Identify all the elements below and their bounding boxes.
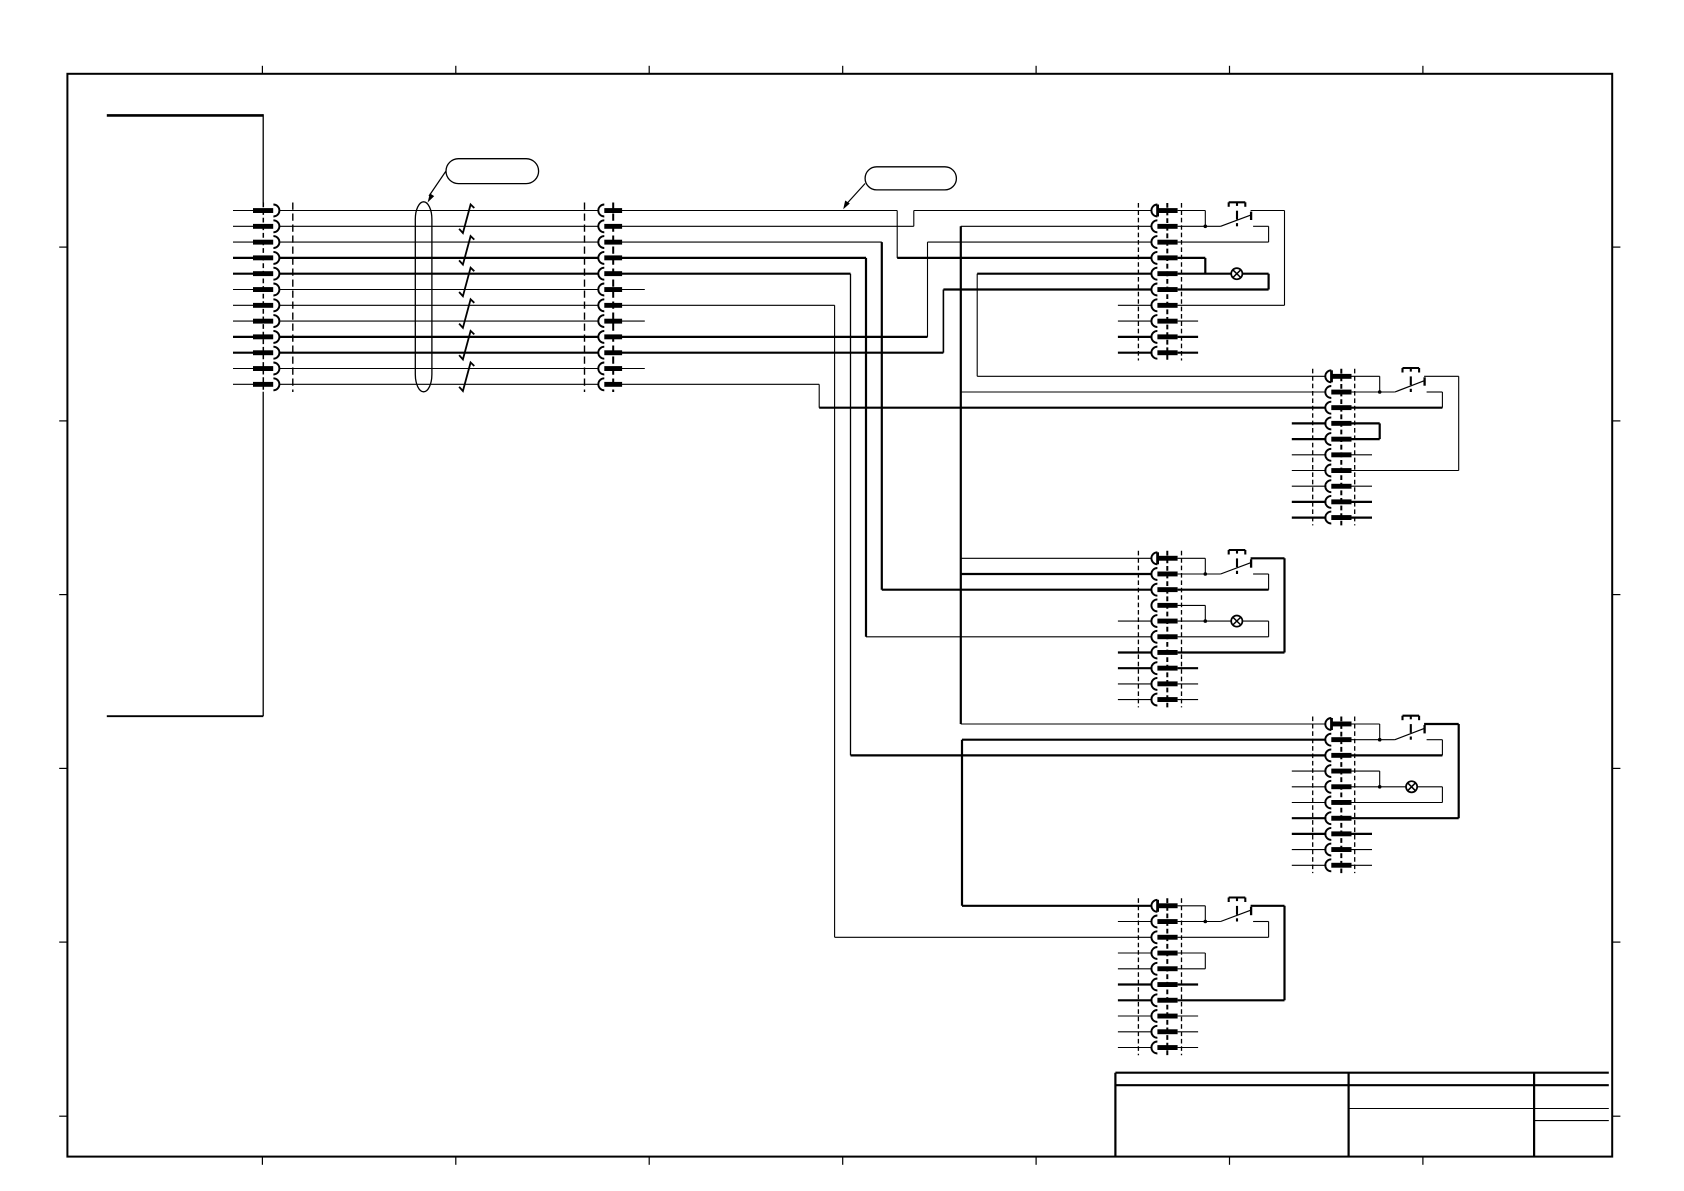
wire net12 (279, 383, 598, 385)
wire J7 pin7 stub (1118, 999, 1153, 1001)
connector J7 (1118, 898, 1198, 1055)
wire (1352, 739, 1395, 741)
wire J5 pin9 stub (1178, 683, 1199, 685)
wire J4 pin9 stub (1352, 501, 1373, 503)
wire (622, 368, 645, 370)
wire B bridge return (1352, 438, 1380, 440)
wire (1283, 558, 1285, 652)
pin 9 (1151, 331, 1157, 343)
wire (1178, 288, 1269, 290)
junction B (1378, 390, 1382, 394)
wire (960, 226, 962, 724)
wire J1 pin 2 stub (233, 225, 253, 227)
cable W1 wires (279, 211, 598, 385)
pin 8 (1151, 1010, 1157, 1022)
wire J5 pin5 stub (1118, 620, 1153, 622)
pin 8 (1325, 828, 1331, 840)
wire (1424, 375, 1459, 377)
wire J4 pin5 stub (1292, 438, 1327, 440)
twisted-pair mark 1 (459, 205, 474, 234)
wire J1 pin 7 stub (233, 304, 253, 306)
wire C lamp return (1242, 620, 1268, 622)
pin 5 (1325, 781, 1331, 793)
wire (1178, 257, 1206, 259)
wire (1251, 210, 1285, 212)
wire J3 pin7 stub (1118, 304, 1153, 306)
pin 8 (1325, 480, 1331, 492)
wire (1178, 905, 1206, 907)
wire (1352, 470, 1459, 472)
pin 7 (1151, 994, 1157, 1006)
twisted-pair mark 5 (459, 331, 474, 360)
wire net4 (279, 257, 598, 259)
pin 9 (598, 331, 604, 343)
pin 1 (1325, 718, 1331, 730)
wire (976, 274, 978, 377)
pin 5 (1151, 615, 1157, 627)
wire J1 pin 10 stub (233, 352, 253, 354)
wire J6 pin9 stub (1292, 849, 1327, 851)
net r1: J2-1 to J3-4 (622, 211, 1151, 258)
pin 10 (253, 350, 273, 355)
wire (882, 589, 1152, 591)
wire J5 pin10 stub (1178, 699, 1199, 701)
wire J5 pin8 stub (1118, 667, 1153, 669)
pin 9 (1325, 496, 1331, 508)
wire (961, 557, 1152, 559)
J5 boundary dashes (1137, 551, 1139, 708)
wire J4 pin8 stub (1292, 485, 1327, 487)
pin 2 (1325, 734, 1331, 746)
connector J3 (1118, 203, 1198, 361)
wire (1268, 226, 1270, 242)
wire net11 (279, 368, 598, 370)
switch S-A (1221, 202, 1252, 226)
wire (961, 723, 1325, 725)
wire J5 pin9 stub (1118, 683, 1153, 685)
pin 10 (1325, 512, 1331, 524)
switch S-B wiring (1352, 376, 1395, 392)
wire (1178, 589, 1269, 591)
net r3: J2-3 to J5-3 (622, 242, 1151, 590)
pin 8 (253, 319, 273, 324)
junction D lamp (1378, 785, 1382, 789)
wire J6 pin7 stub (1292, 817, 1327, 819)
pin 6 (1325, 449, 1331, 461)
pin 9 (253, 334, 273, 339)
pin 5 (1151, 268, 1157, 280)
pin 8 (1151, 315, 1157, 327)
wire (1253, 573, 1269, 575)
wire (1251, 557, 1285, 559)
wire net7 (279, 304, 598, 306)
wire D pin4-pin5 bridge (1352, 771, 1380, 787)
junction C (1204, 572, 1208, 576)
wire J6 pin8 stub (1352, 833, 1373, 835)
pin 10 (1151, 694, 1157, 706)
junction D (1378, 738, 1382, 742)
pin 6 (1325, 797, 1331, 809)
wire (927, 242, 929, 337)
wire (622, 336, 928, 338)
wire (961, 573, 1152, 575)
wire J1 pin 8 stub (233, 320, 253, 322)
J2 boundary dash (584, 203, 586, 393)
wire (850, 274, 852, 756)
twisted-pair mark 2 (459, 236, 474, 265)
wire J6 pin6 stub (1292, 802, 1327, 804)
wire (1379, 376, 1381, 392)
wire (1178, 921, 1221, 923)
wire A pin4-pin5 bridge (1178, 258, 1206, 274)
wire (1204, 906, 1206, 922)
wire (1253, 225, 1269, 227)
wire (1352, 754, 1443, 756)
wire (819, 407, 1325, 409)
wire J7 pin9 stub (1178, 1031, 1199, 1033)
wire (622, 320, 645, 322)
wire J7 pin6 stub (1178, 983, 1199, 985)
wire (1352, 817, 1459, 819)
pin 3 (1151, 931, 1157, 943)
wire A lamp return (1242, 273, 1268, 275)
wire J7 pin9 stub (1118, 1031, 1153, 1033)
wire C pin4-pin5 bridge (1178, 605, 1206, 621)
twisted-pair mark 3 (459, 268, 474, 297)
wire (961, 740, 963, 906)
pin 11 (253, 366, 273, 371)
pin 4 (598, 252, 604, 264)
wire net6 (279, 289, 598, 291)
wire J4 pin9 stub (1292, 501, 1327, 503)
wire (1178, 936, 1269, 938)
wire J1 pin 11 stub (233, 368, 253, 370)
wire (1268, 922, 1270, 938)
wire (881, 242, 883, 590)
wire J3 pin9 stub (1178, 336, 1199, 338)
wire J6 pin10 stub (1352, 864, 1373, 866)
junction C lamp (1204, 619, 1208, 623)
wire (961, 225, 1152, 227)
pin 5 (253, 271, 273, 276)
pin 2 (1151, 220, 1157, 232)
bus X2: D2-E1 (962, 740, 1325, 906)
wire J3 pin10 stub (1178, 352, 1199, 354)
wire net2 (279, 225, 598, 227)
wire (622, 241, 882, 243)
wire (1283, 906, 1285, 1001)
wire (1178, 210, 1206, 212)
wire J7 pin2 stub (1118, 921, 1153, 923)
pin 1 (1325, 370, 1331, 382)
J3 centerline (1166, 203, 1168, 361)
wire (928, 241, 1152, 243)
wire net3 (279, 241, 598, 243)
pin 8 (598, 315, 604, 327)
wire (962, 739, 1325, 741)
bus X1: A2-B2-C1-C2-D1 (961, 226, 1325, 724)
wire net1 (279, 210, 598, 212)
wire (962, 905, 1151, 907)
wire B loop return (1352, 376, 1459, 470)
J1 boundary dash (292, 203, 294, 393)
wire (818, 384, 820, 407)
wire J3 pin9 stub (1118, 336, 1153, 338)
wire J5 pin7 stub (1118, 651, 1153, 653)
switch S-E wiring (1178, 906, 1221, 922)
wire J7 pin10 stub (1178, 1047, 1199, 1049)
pin 4 (1151, 252, 1157, 264)
pin 4 (253, 255, 273, 260)
pin 9 (1151, 1026, 1157, 1038)
pin 6 (1151, 631, 1157, 643)
pin 2 (1151, 916, 1157, 928)
wire J3 pin8 stub (1118, 320, 1153, 322)
wire (977, 375, 1325, 377)
pin 1 (1151, 205, 1157, 217)
switch S-D (1395, 716, 1425, 740)
wire E NC return (1178, 922, 1269, 938)
pin 12 (253, 382, 273, 387)
wire (851, 754, 1326, 756)
wire J7 pin10 stub (1118, 1047, 1153, 1049)
switch S-B (1395, 368, 1425, 392)
wire J6 pin4 stub (1292, 770, 1327, 772)
J6 boundary dashes (1312, 717, 1314, 874)
switch S-C (1221, 550, 1252, 574)
wire J4 pin4 stub (1292, 422, 1327, 424)
pin 7 (598, 299, 604, 311)
wire J6 pin8 stub (1292, 833, 1327, 835)
twisted-pair mark 4 (459, 299, 474, 328)
wire J1 pin 1 stub (233, 210, 253, 212)
J6 centerline (1340, 717, 1342, 874)
wire (1379, 423, 1381, 439)
wire J5 pin8 stub (1178, 667, 1199, 669)
wire (977, 273, 1151, 275)
wire J1 pin 3 stub (233, 241, 253, 243)
wire (1178, 636, 1269, 638)
pin 9 (1325, 844, 1331, 856)
callout label 2 (843, 167, 956, 210)
pin 1 (1151, 900, 1157, 912)
wire (1379, 771, 1381, 787)
connector J6 (1292, 717, 1372, 874)
J7 boundary dashes (1137, 898, 1139, 1055)
connector J1 (233, 203, 293, 393)
wire E pin4-pin5 bridge (1178, 953, 1206, 969)
wire (943, 288, 1151, 290)
connector J2 (585, 203, 623, 393)
pin 6 (253, 287, 273, 292)
wire (896, 211, 898, 258)
wire (1441, 392, 1443, 408)
wire J7 pin6 stub (1118, 983, 1153, 985)
wire (1352, 802, 1443, 804)
wire C loop return (1178, 558, 1285, 652)
wire (1441, 787, 1443, 803)
switch S-A wiring (1178, 211, 1221, 227)
wire (1352, 422, 1380, 424)
pin 2 (1151, 568, 1157, 580)
wire (1204, 558, 1206, 574)
junction E (1204, 920, 1208, 924)
wire J1 pin 12 stub (233, 383, 253, 385)
wire J1 pin 6 stub (233, 289, 253, 291)
wire (1204, 258, 1206, 274)
wire (1178, 225, 1221, 227)
wire (913, 211, 915, 227)
wire J6 pin5 stub (1292, 786, 1327, 788)
wire (1268, 621, 1270, 637)
wire J4 pin6 stub (1292, 454, 1327, 456)
pin 6 (1151, 979, 1157, 991)
wire (1458, 724, 1460, 818)
pin 12 (598, 378, 604, 390)
wire E bridge return (1178, 968, 1206, 970)
wire C lamp feed (1178, 620, 1232, 622)
wire (942, 290, 944, 353)
pin 4 (1325, 417, 1331, 429)
wire (622, 352, 943, 354)
wire (1178, 651, 1285, 653)
wire J4 pin6 stub (1352, 454, 1373, 456)
pin 10 (1151, 1042, 1157, 1054)
wire (835, 936, 1152, 938)
pin 3 (1151, 584, 1157, 596)
wire A NC return (1178, 226, 1269, 242)
wire (1267, 274, 1269, 290)
wire J4 pin8 stub (1352, 485, 1373, 487)
wire (866, 636, 1151, 638)
pin 10 (1325, 859, 1331, 871)
wire (1178, 573, 1221, 575)
wire (1352, 723, 1380, 725)
wire A lamp feed (1178, 273, 1232, 275)
wire (961, 391, 1325, 393)
net r5: J2-5 to J6-3 (622, 274, 1325, 756)
twisted-pair mark 6 (459, 363, 474, 392)
wire (622, 257, 866, 259)
pin 4 (1151, 599, 1157, 611)
wire J4 pin10 stub (1292, 516, 1327, 518)
wire J3 pin8 stub (1178, 320, 1199, 322)
pin 5 (598, 268, 604, 280)
wire C NC return (1178, 574, 1269, 590)
pin 1 (598, 205, 604, 217)
pin 5 (1151, 963, 1157, 975)
pin 3 (1325, 402, 1331, 414)
net r12: J2-12 to J4-3 (622, 384, 1325, 407)
wire (1178, 304, 1285, 306)
wire J7 pin8 stub (1118, 1015, 1153, 1017)
wire (622, 210, 897, 212)
pin 3 (1325, 749, 1331, 761)
net r2: J2-2 to J3-1 (622, 211, 1151, 227)
wire B pin4-pin5 bridge (1352, 423, 1380, 439)
net r4: J2-4 to J5-6 (622, 258, 1151, 637)
wire (622, 273, 851, 275)
wire J7 pin5 stub (1118, 968, 1153, 970)
pin 8 (1151, 662, 1157, 674)
pin 11 (598, 363, 604, 375)
pin 3 (253, 240, 273, 245)
pin 6 (1151, 284, 1157, 296)
wire J5 pin10 stub (1118, 699, 1153, 701)
wire (1204, 211, 1206, 227)
wire J4 pin7 stub (1292, 470, 1327, 472)
pin 9 (1151, 678, 1157, 690)
pin 4 (1325, 765, 1331, 777)
wire (1427, 739, 1443, 741)
wire (1178, 241, 1269, 243)
wire J4 pin10 stub (1352, 516, 1373, 518)
wire D lamp return (1417, 786, 1442, 788)
pin 2 (1325, 386, 1331, 398)
wire (914, 210, 1152, 212)
pin 10 (1151, 347, 1157, 359)
wire (1284, 211, 1286, 306)
wire (1352, 391, 1395, 393)
wire net5 (279, 273, 598, 275)
wire (1427, 391, 1443, 393)
wire J6 pin10 stub (1292, 864, 1327, 866)
wire (1458, 376, 1460, 470)
title block (1115, 1073, 1608, 1157)
wire (1352, 375, 1380, 377)
wire (1352, 770, 1380, 772)
wire D lamp feed (1352, 786, 1407, 788)
pin 6 (598, 284, 604, 296)
wire (1253, 921, 1269, 923)
J7 centerline (1166, 898, 1168, 1055)
wire (1178, 999, 1285, 1001)
switch S-E (1221, 898, 1252, 922)
wire (622, 225, 914, 227)
wire net8 (279, 320, 598, 322)
J4 centerline (1340, 369, 1342, 526)
wire (1268, 574, 1270, 590)
wire (1204, 605, 1206, 621)
pin 7 (1325, 465, 1331, 477)
wire D loop return (1352, 724, 1459, 818)
pin 1 (1151, 552, 1157, 564)
wire (1204, 953, 1206, 969)
lamp DS-D (1406, 781, 1417, 792)
pin 7 (1151, 299, 1157, 311)
wire J7 pin4 stub (1118, 952, 1153, 954)
switch S-C wiring (1178, 558, 1221, 574)
wire D NC return (1352, 740, 1443, 756)
net r7: J2-7 to J7-3 (622, 305, 1151, 937)
wire (897, 257, 1151, 259)
J2 centerline (612, 203, 614, 393)
wire net9 (279, 336, 598, 338)
connector J4 (1292, 369, 1372, 526)
wire J3 pin10 stub (1118, 352, 1153, 354)
pin 4 (1151, 947, 1157, 959)
pin 7 (1151, 647, 1157, 659)
wire (1178, 604, 1206, 606)
component U1 outline (107, 114, 263, 716)
wire (622, 289, 645, 291)
J4 boundary dashes (1312, 369, 1314, 526)
wire J6 pin9 stub (1352, 849, 1373, 851)
cable W1 shield oval (415, 202, 432, 392)
wire (1178, 557, 1206, 559)
J3 boundary dashes (1137, 203, 1139, 361)
J5 centerline (1166, 551, 1168, 708)
